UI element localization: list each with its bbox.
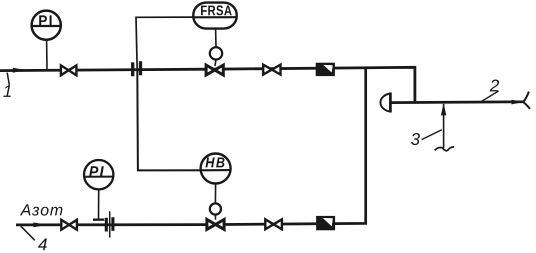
wire: impulse line from orifice down to HB balloon (with chord through balloon) (137, 70, 230, 170)
valve V1 (manual gate valve, pipe 1 left) (61, 65, 77, 75)
orifice flange set on pipe 1 (133, 61, 141, 76)
vent line 3 (arrow up into line 2) (443, 104, 445, 148)
instrument PI (pressure gauge, top) (32, 11, 61, 40)
text: stream number 3 (411, 133, 420, 145)
text: stream number 1 (3, 85, 11, 97)
control valve CV1 on pipe 1 (206, 65, 223, 75)
text: stream number 4 (38, 239, 47, 251)
valve V3 (manual valve, pipe 4 left) (61, 220, 77, 230)
wire: bottom PI stem with tap tick (98, 190, 100, 220)
flow arrow on line 2 (512, 100, 525, 105)
node: leader line for label 3 (422, 130, 442, 140)
wire: actuator stem to CV1 (214, 60, 217, 66)
wire: impulse line from orifice up to FRSA balloon (136, 17, 195, 70)
wire: nitrogen pipe 4 (bottom horizontal) joining vertical riser up to pipe 1 (16, 68, 366, 225)
actuator circle of control valve CV1 (210, 47, 222, 59)
wire: actuator stem to CV2 (214, 215, 216, 220)
node: leader line for label 1 (7, 73, 9, 86)
control valve CV2 on pipe 4 (207, 220, 224, 230)
break/continuation fishtail at end of line 2 (523, 92, 530, 109)
wire: outlet line 2 (horizontal to right edge) (391, 100, 524, 103)
break squiggle at bottom of vent 3 (435, 147, 455, 151)
node: leader line for label 4 (21, 226, 35, 240)
orifice flange set on pipe 4 (106, 217, 113, 231)
instrument HB (balloon, bottom branch) (201, 154, 231, 184)
flow arrow on pipe 4 (33, 223, 48, 228)
node: leader line for label 2 (482, 91, 499, 101)
nozzle/ejector symbol (half circle) on line 2 (380, 94, 390, 112)
instrument PI (pressure gauge, bottom) (84, 160, 113, 189)
instrument FRSA (flow recorder balloon) (193, 3, 236, 29)
actuator circle of control valve CV2 (210, 203, 221, 214)
wire: PI stem down to pipe 1 (46, 40, 48, 69)
wire: HB stem to actuator circle CV2 (214, 184, 216, 204)
restriction device R1 (half-darkened square) on pipe 1 (316, 63, 334, 75)
flow arrow on pipe 1 (13, 68, 26, 73)
text: Азот (nitrogen) inlet label (20, 204, 63, 215)
wire: FRSA stem to actuator circle (215, 29, 217, 48)
restriction device R2 (half-darkened square) on pipe 4 (317, 217, 335, 230)
valve V2 (manual valve, pipe 1 right) (263, 65, 280, 75)
valve V4 (manual valve, pipe 4 right) (265, 219, 282, 229)
wire: main process pipe 1 (top horizontal, ends turning down at right) (0, 67, 415, 102)
text: stream number 2 (490, 80, 499, 92)
